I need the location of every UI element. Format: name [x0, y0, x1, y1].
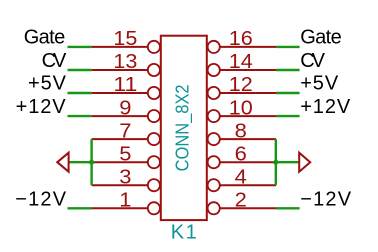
svg-text:15: 15 [113, 28, 137, 50]
net label -12V right [300, 189, 352, 211]
wire Gate left [68, 46, 92, 48]
svg-text:+12V: +12V [300, 96, 351, 118]
net label CV left [42, 50, 67, 72]
reference K1 [171, 222, 197, 244]
svg-text:+12V: +12V [16, 96, 67, 118]
wire -12V right [276, 207, 300, 209]
svg-text:+5V: +5V [300, 72, 339, 94]
net label -12V left [15, 189, 67, 211]
pin 11 [92, 87, 160, 99]
svg-text:CV: CV [300, 50, 325, 72]
svg-text:1: 1 [119, 190, 131, 212]
junction left [89, 160, 94, 165]
svg-text:10: 10 [229, 97, 253, 119]
svg-text:+5V: +5V [28, 72, 67, 94]
net label Gate left [24, 27, 65, 49]
junction right [273, 160, 278, 165]
global label arrow right [299, 153, 310, 172]
svg-text:CONN_8X2: CONN_8X2 [172, 84, 193, 171]
pin 13 [92, 64, 160, 76]
svg-text:6: 6 [235, 143, 247, 165]
wire CV right [276, 69, 300, 71]
pin 8 [208, 133, 276, 145]
net label +5V left [28, 72, 67, 94]
pin 6 [208, 156, 276, 168]
wire vertical bus left (pins 7-5-3) [90, 139, 92, 185]
pin 4 [208, 179, 276, 191]
wire vertical bus right (pins 8-6-4) [275, 139, 277, 185]
svg-text:K1: K1 [171, 222, 197, 244]
svg-text:−12V: −12V [15, 189, 67, 211]
pin 3 [92, 179, 160, 191]
pin 9 [92, 110, 160, 122]
wire stub to right arrow [276, 161, 299, 163]
global label arrow left [57, 153, 68, 172]
svg-text:13: 13 [113, 51, 137, 73]
pin 14 [208, 64, 276, 76]
pin 7 [92, 133, 160, 145]
svg-text:4: 4 [235, 166, 247, 188]
wire Gate right [276, 46, 300, 48]
pin 12 [208, 87, 276, 99]
net label +12V left [16, 96, 67, 118]
pin 1 [92, 202, 160, 214]
wire -12V left [68, 207, 92, 209]
wire +5V left [68, 92, 92, 94]
svg-text:14: 14 [229, 51, 253, 73]
svg-text:Gate: Gate [24, 27, 65, 49]
net label Gate right [300, 27, 342, 49]
net label +12V right [300, 96, 351, 118]
svg-text:16: 16 [229, 28, 253, 50]
svg-text:8: 8 [235, 120, 247, 142]
wire CV left [68, 69, 92, 71]
wire +12V right [276, 115, 300, 117]
svg-text:−12V: −12V [300, 189, 352, 211]
pin 5 [92, 156, 160, 168]
wire +12V left [68, 115, 92, 117]
svg-text:3: 3 [119, 166, 131, 188]
wire stub to left arrow [69, 161, 92, 163]
pin 15 [92, 41, 160, 53]
svg-text:5: 5 [119, 143, 131, 165]
pin 16 [208, 41, 276, 53]
svg-text:7: 7 [119, 120, 131, 142]
pin 10 [208, 110, 276, 122]
pin numbers left [113, 28, 137, 211]
svg-text:CV: CV [42, 50, 67, 72]
pin 2 [208, 202, 276, 214]
value CONN_8X2 [172, 84, 193, 171]
svg-text:2: 2 [235, 190, 247, 212]
connector body CONN_8X2 K1 [161, 36, 207, 220]
svg-text:11: 11 [113, 74, 137, 96]
svg-text:Gate: Gate [300, 27, 342, 49]
pin numbers right [229, 28, 253, 211]
net label +5V right [300, 72, 339, 94]
net label CV right [300, 50, 325, 72]
svg-text:12: 12 [229, 74, 253, 96]
svg-text:9: 9 [119, 97, 131, 119]
wire +5V right [276, 92, 300, 94]
